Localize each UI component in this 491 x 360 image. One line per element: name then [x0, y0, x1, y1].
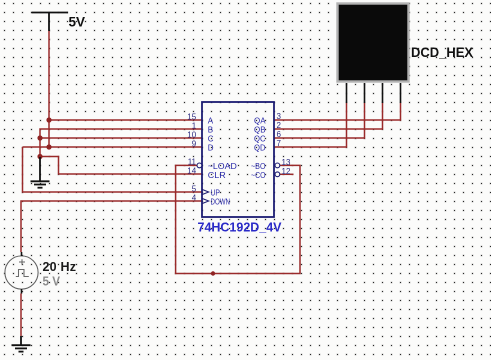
svg-text:CLR: CLR: [208, 171, 226, 180]
svg-text:6: 6: [277, 130, 282, 139]
svg-text:10: 10: [187, 130, 196, 139]
display pin 4: [400, 83, 402, 103]
svg-text:5: 5: [192, 184, 197, 193]
svg-text:15: 15: [187, 112, 196, 121]
svg-text:A: A: [208, 117, 214, 126]
junction dot (49,120): [46, 117, 51, 122]
power supply VCC 5V: [32, 13, 69, 32]
display U2 DCD_HEX box: [338, 4, 409, 82]
wire VCC vertical x=49: [48, 31, 50, 147]
svg-text:4: 4: [192, 193, 197, 202]
svg-text:~BO: ~BO: [251, 162, 266, 171]
wire QC pin6 to display: [274, 103, 365, 138]
junction dot (40,138): [37, 135, 42, 140]
wire ~BO to ~LOAD feedback loop: [176, 165, 300, 273]
svg-text:QD: QD: [254, 144, 266, 153]
clock source V1: [5, 252, 38, 294]
display pin 3: [382, 83, 384, 103]
pin names right: [251, 117, 266, 180]
svg-text:QC: QC: [254, 135, 266, 144]
wire pin10 C: [40, 137, 202, 139]
svg-text:5V: 5V: [69, 15, 86, 30]
wire ~CO stub pin12: [279, 173, 294, 175]
wire QD pin7 to display: [274, 103, 347, 147]
svg-text:11: 11: [188, 157, 197, 166]
svg-text:14: 14: [187, 166, 196, 175]
svg-text:3: 3: [277, 112, 282, 121]
wire CLR stepped to pin14: [40, 157, 202, 175]
wire QB pin2 to display: [274, 103, 383, 129]
svg-text:74HC192D_4V: 74HC192D_4V: [198, 220, 282, 235]
svg-text:C: C: [208, 135, 214, 144]
svg-text:DOWN: DOWN: [211, 198, 231, 207]
junction dot (49,147): [46, 144, 51, 149]
svg-text:7: 7: [277, 139, 282, 148]
joint dot on loop: [211, 271, 215, 275]
svg-text:13: 13: [282, 158, 291, 167]
wire UP vertical+horizontal to pin5: [23, 147, 203, 192]
svg-text:5 V: 5 V: [43, 275, 61, 289]
svg-text:QA: QA: [254, 117, 266, 126]
svg-text:UP: UP: [211, 189, 221, 198]
svg-text:D: D: [208, 144, 214, 153]
wire clock bottom to ground: [20, 294, 22, 337]
svg-text:~CO: ~CO: [251, 171, 266, 180]
op IC U1 74HC192D body: [202, 102, 274, 217]
display pin 2: [364, 83, 366, 103]
junction dot (40,156.5): [37, 154, 42, 159]
svg-text:1: 1: [192, 121, 197, 130]
display pin 1: [346, 83, 348, 103]
pin 11 bubble ~LOAD: [197, 163, 202, 168]
ground GND2 clock: [12, 336, 31, 352]
pin 13 bubble ~BO: [275, 163, 280, 168]
pin names left: [208, 117, 237, 207]
wire pin9 D: [23, 146, 203, 148]
svg-text:~LOAD: ~LOAD: [208, 162, 237, 171]
wire pin1 B from gnd line: [40, 129, 202, 157]
svg-text:2: 2: [277, 121, 282, 130]
wire QA pin3 to display: [274, 103, 401, 120]
pin numbers left: [187, 112, 196, 202]
ground GND1 left: [31, 157, 50, 188]
wire DOWN from clock to pin4: [21, 201, 202, 252]
svg-text:B: B: [208, 126, 213, 135]
svg-text:20 Hz: 20 Hz: [43, 260, 77, 274]
wire pin15 A: [49, 119, 202, 121]
svg-text:9: 9: [192, 139, 197, 148]
pin 4 clock wedge: [202, 198, 209, 203]
pin 5 clock wedge: [202, 189, 209, 194]
svg-text:12: 12: [282, 167, 291, 176]
pin 12 bubble ~CO: [275, 172, 280, 177]
svg-text:DCD_HEX: DCD_HEX: [411, 45, 473, 60]
pin numbers right: [277, 112, 291, 176]
svg-text:QB: QB: [254, 126, 266, 135]
